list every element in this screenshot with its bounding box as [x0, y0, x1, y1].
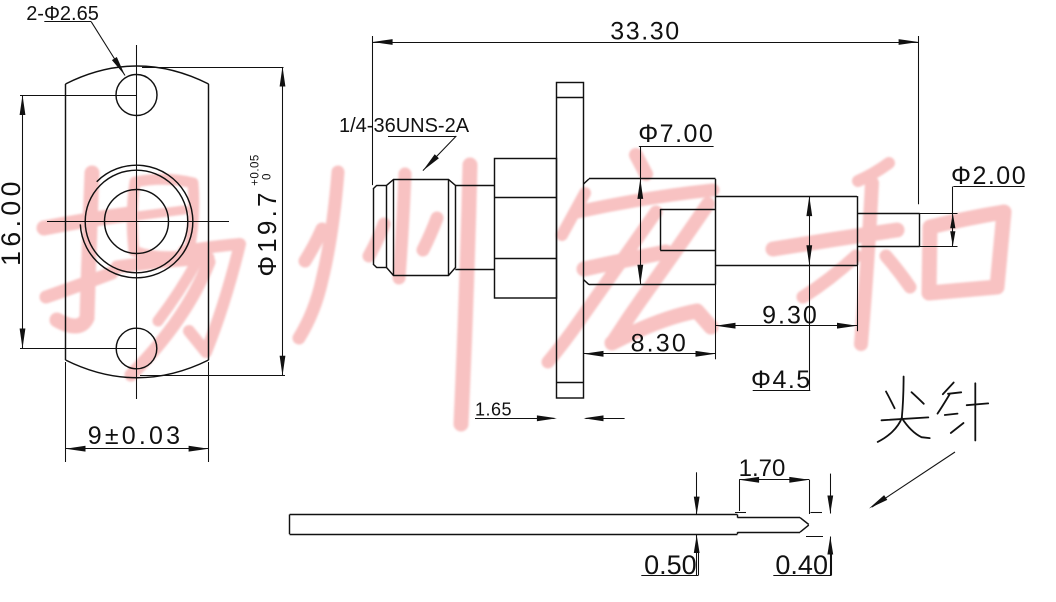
svg-text:1/4-36UNS-2A: 1/4-36UNS-2A — [339, 115, 470, 137]
svg-text:33.30: 33.30 — [610, 18, 681, 46]
svg-text:0.40: 0.40 — [775, 550, 828, 580]
svg-text:16.00: 16.00 — [0, 177, 26, 266]
svg-text:Φ19.7: Φ19.7 — [252, 189, 282, 276]
svg-text:0: 0 — [262, 173, 274, 180]
svg-text:Φ4.5: Φ4.5 — [751, 366, 812, 394]
svg-text:9.30: 9.30 — [762, 302, 819, 330]
svg-text:+0.05: +0.05 — [250, 154, 262, 186]
svg-text:Φ2.00: Φ2.00 — [951, 162, 1027, 190]
svg-text:2-Φ2.65: 2-Φ2.65 — [26, 3, 99, 25]
svg-text:1.70: 1.70 — [739, 455, 786, 482]
svg-text:1.65: 1.65 — [475, 400, 512, 420]
svg-text:9±0.03: 9±0.03 — [88, 422, 183, 450]
svg-text:0.50: 0.50 — [644, 550, 697, 580]
svg-text:8.30: 8.30 — [631, 330, 688, 358]
svg-text:Φ7.00: Φ7.00 — [638, 120, 714, 148]
